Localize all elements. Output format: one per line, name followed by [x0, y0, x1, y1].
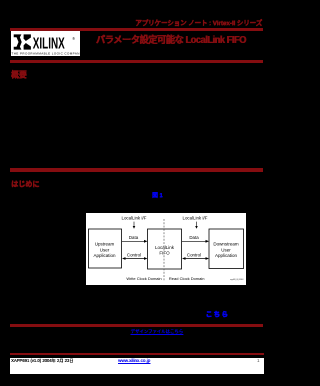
svg-text:LocalLink I/F: LocalLink I/F	[122, 216, 147, 221]
svg-text:Upstream: Upstream	[95, 241, 115, 246]
svg-text:®: ®	[72, 37, 75, 41]
svg-text:Control: Control	[187, 253, 201, 258]
svg-text:Data: Data	[129, 235, 139, 240]
svg-text:LocalLink: LocalLink	[155, 245, 175, 250]
svg-text:Write Clock Domain: Write Clock Domain	[126, 276, 161, 281]
svg-text:xapp691_01_020304: xapp691_01_020304	[230, 279, 244, 281]
svg-text:Application: Application	[93, 253, 116, 258]
svg-text:User: User	[100, 247, 110, 252]
svg-text:XILINX: XILINX	[33, 34, 65, 52]
svg-text:THE PROGRAMMABLE LOGIC COMPANY: THE PROGRAMMABLE LOGIC COMPANY	[12, 52, 80, 56]
svg-text:User: User	[221, 247, 231, 252]
svg-text:Read Clock Domain: Read Clock Domain	[169, 276, 205, 281]
svg-text:Application: Application	[215, 253, 238, 258]
svg-text:FIFO: FIFO	[159, 251, 170, 256]
svg-text:Downstream: Downstream	[213, 241, 239, 246]
svg-text:Control: Control	[127, 253, 141, 258]
svg-text:LocalLink I/F: LocalLink I/F	[183, 216, 208, 221]
svg-text:Data: Data	[189, 235, 199, 240]
